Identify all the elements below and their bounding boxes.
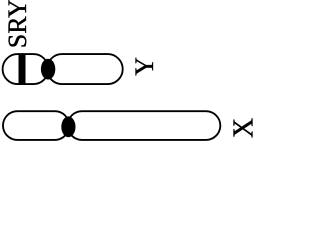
- svg-text:X: X: [228, 118, 253, 138]
- X chromosome short arm (capsule): [3, 111, 69, 140]
- svg-text:SRY: SRY: [3, 0, 32, 48]
- Y centromere: [41, 59, 55, 80]
- X centromere: [61, 116, 75, 137]
- svg-text:Y: Y: [130, 57, 159, 76]
- Y chromosome short arm (capsule): [3, 54, 49, 84]
- SRY band on Y short arm: [19, 54, 26, 85]
- Y chromosome long arm (capsule): [47, 54, 123, 84]
- X chromosome long arm (capsule): [68, 111, 221, 140]
